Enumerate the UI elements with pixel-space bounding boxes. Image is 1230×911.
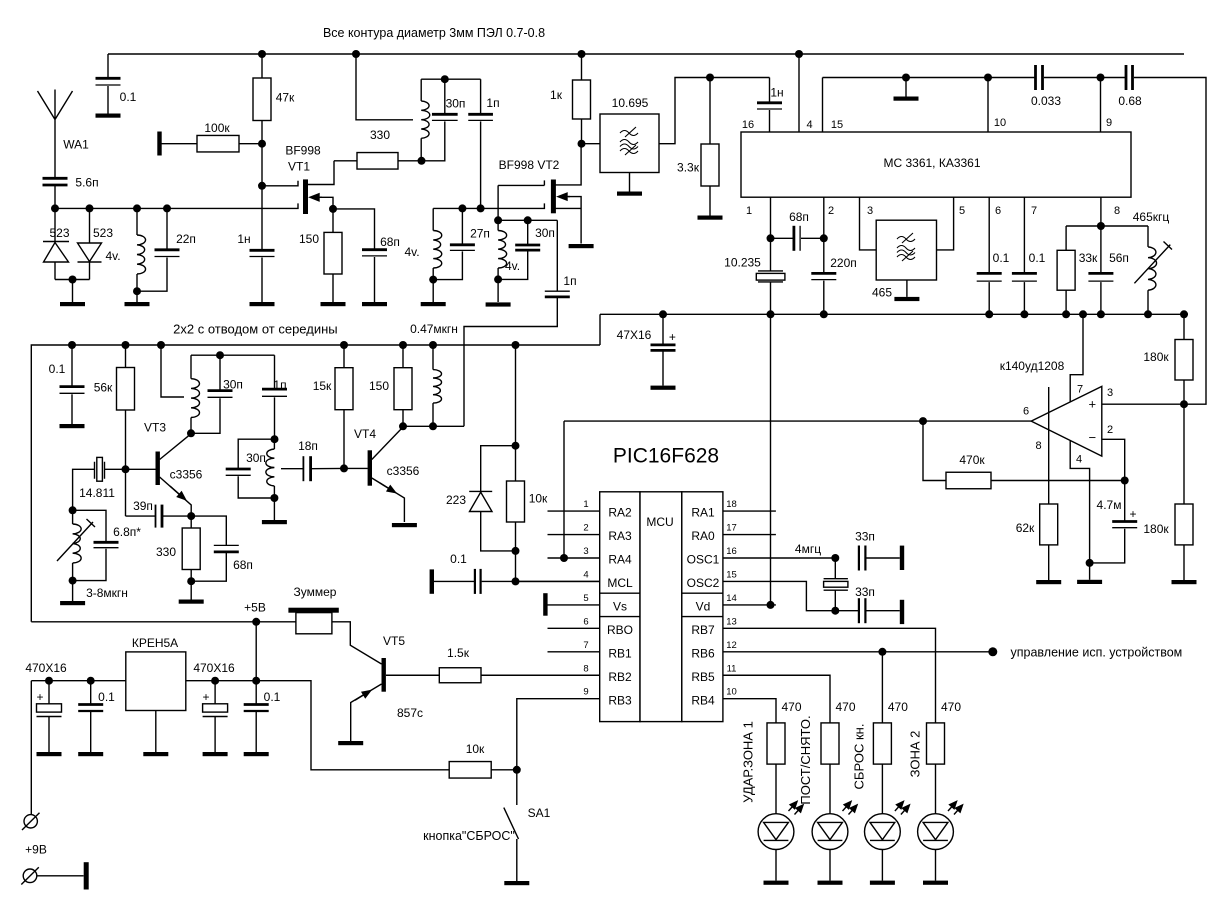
- wire LED4 bottom lead: [935, 850, 937, 881]
- svg-text:16: 16: [742, 119, 754, 131]
- wire +9V top rail: [108, 53, 1184, 55]
- capacitor 0.1 (pin7): [1012, 273, 1037, 281]
- svg-text:12: 12: [726, 640, 737, 651]
- svg-text:10к: 10к: [529, 492, 548, 506]
- wire 68p3 top link: [191, 516, 226, 545]
- wire LED3 drop: [881, 652, 883, 723]
- LED3 light arrow 2: [901, 805, 910, 815]
- ground (input tank): [125, 302, 150, 306]
- node tank top / 30p: [441, 75, 449, 83]
- wire coil bottom lead: [420, 138, 422, 161]
- svg-text:ПОСТ/СНЯТО.: ПОСТ/СНЯТО.: [798, 715, 813, 804]
- filter ZQ 10.695 box: [600, 114, 659, 173]
- svg-text:RA1: RA1: [691, 506, 715, 520]
- svg-text:RB2: RB2: [608, 670, 632, 684]
- svg-text:4: 4: [1076, 454, 1082, 466]
- capacitor 39p: [156, 505, 163, 528]
- svg-text:47X16: 47X16: [617, 328, 652, 342]
- capacitor 0.1 (input): [78, 705, 103, 712]
- ground (filter 10.695): [617, 192, 642, 196]
- transistor VT4 body: [368, 450, 372, 485]
- node bus/0.1 pin6: [985, 310, 993, 318]
- wire battery + lead: [30, 681, 32, 815]
- wire 33p bottom right lead: [866, 610, 899, 612]
- IC U3 PIC16F628 mid column: [640, 492, 682, 722]
- wire 150b top lead: [402, 345, 404, 368]
- node rail/0.1 R: [252, 677, 260, 685]
- node bus/56p: [1097, 310, 1105, 318]
- wire to ground: [72, 280, 74, 303]
- LED HL3: [865, 814, 901, 850]
- wire 3.3k top lead: [709, 78, 711, 145]
- wire 100k right lead: [239, 143, 262, 145]
- svg-text:0.1: 0.1: [1029, 251, 1046, 265]
- wire bus riser: [599, 314, 601, 345]
- wire 150 ground lead: [332, 274, 334, 302]
- node gnd tap: [902, 74, 910, 82]
- svg-text:10: 10: [726, 687, 737, 698]
- svg-text:100к: 100к: [204, 121, 230, 135]
- node VT3 tank/30p: [216, 351, 224, 359]
- svg-text:Зуммер: Зуммер: [294, 585, 337, 599]
- capacitor 68p (quad): [794, 226, 800, 251]
- svg-text:5: 5: [583, 593, 588, 604]
- wire pin16 OSC1: [723, 557, 835, 559]
- svg-text:3: 3: [1107, 387, 1113, 399]
- ground (cap 1n): [250, 302, 275, 306]
- wire pin6 RBO stub: [548, 627, 600, 629]
- LED2 light arrow 2: [849, 805, 858, 815]
- svg-text:VT5: VT5: [383, 634, 405, 648]
- wire 1p top lead: [480, 79, 482, 114]
- regulator KREN5A body: [126, 652, 186, 711]
- svg-text:33п: 33п: [855, 530, 875, 544]
- wire pin6: [988, 197, 990, 273]
- wire cap 0.1 top lead: [107, 54, 109, 78]
- LED HL1: [758, 814, 794, 850]
- wire 0.1 L top lead: [90, 681, 92, 705]
- svg-text:2: 2: [828, 205, 834, 217]
- VT3 emitter arrow: [170, 486, 186, 500]
- svg-text:56к: 56к: [94, 381, 113, 395]
- wire pin9 RB3: [517, 699, 600, 770]
- wire to MCL: [515, 551, 517, 582]
- ground (0.1 osc): [60, 424, 85, 428]
- ground (LED2): [818, 881, 843, 885]
- LED1 light arrow 1: [789, 802, 798, 812]
- wire 0.1 MCL left lead: [434, 580, 475, 582]
- svg-text:7: 7: [1077, 384, 1083, 396]
- node OSC1/crystal: [831, 554, 839, 562]
- filter ZQ 10.695 symbol: [620, 127, 638, 155]
- svg-text:8: 8: [583, 663, 588, 674]
- wire pin9: [1100, 78, 1102, 133]
- wire 6.8p bottom link: [73, 549, 106, 581]
- svg-text:c3356: c3356: [170, 468, 203, 482]
- svg-text:1н: 1н: [770, 86, 783, 100]
- wire 1p2 top lead: [556, 220, 558, 291]
- wire +5V bus left: [31, 345, 600, 622]
- wire 39p left lead: [126, 515, 156, 517]
- wire VT4 emitter: [372, 478, 405, 522]
- svg-text:857c: 857c: [397, 706, 423, 720]
- svg-text:8: 8: [1035, 440, 1041, 452]
- svg-text:RBO: RBO: [607, 623, 633, 637]
- wire VT3 gnd lead: [190, 581, 192, 599]
- svg-text:+: +: [669, 330, 676, 344]
- ground (diodes): [60, 302, 85, 306]
- terminal control output: [988, 647, 997, 656]
- svg-text:ЗОНА 2: ЗОНА 2: [908, 731, 923, 778]
- node bus/33k: [1062, 310, 1070, 318]
- wire tank2 top: [498, 219, 557, 221]
- svg-text:4: 4: [806, 119, 812, 131]
- wire 470X16 R bottom lead: [214, 717, 216, 753]
- svg-text:4v.: 4v.: [505, 259, 520, 273]
- diode VD1 523: [43, 242, 69, 263]
- wire pin2: [823, 197, 825, 238]
- svg-text:RB7: RB7: [691, 623, 715, 637]
- node top rail / tank tap: [352, 50, 360, 58]
- wire 10k bottom lead: [515, 522, 517, 551]
- wire VT4 collector line: [403, 425, 464, 427]
- transistor VT5 body: [382, 658, 386, 692]
- svg-text:3: 3: [867, 205, 873, 217]
- svg-text:33п: 33п: [855, 585, 875, 599]
- node tank2 / 30p: [524, 216, 532, 224]
- svg-text:150: 150: [369, 379, 389, 393]
- wire 68p left lead: [771, 237, 793, 239]
- terminal (chassis): [84, 862, 89, 889]
- wire opamp pin3 output: [1102, 403, 1184, 405]
- ground (47X16): [651, 386, 676, 390]
- wire pin17 RA0 stub: [723, 534, 776, 536]
- wire 470X16 R top lead: [214, 681, 216, 704]
- resistor 15k: [335, 368, 353, 410]
- svg-text:RB4: RB4: [691, 693, 715, 707]
- svg-text:22п: 22п: [176, 232, 196, 246]
- node bus/150 VT4: [399, 341, 407, 349]
- svg-text:470: 470: [781, 700, 801, 714]
- svg-text:3-8мкгн: 3-8мкгн: [86, 586, 128, 600]
- node opamp pin3: [1180, 400, 1188, 408]
- svg-text:470: 470: [888, 700, 908, 714]
- node bus / cap 22p: [163, 204, 171, 212]
- node drain tank bottom: [418, 157, 426, 165]
- capacitor 0.1 (MCL): [475, 569, 481, 594]
- node 1k/VT2/filter: [578, 140, 586, 148]
- wire tank gnd lead: [432, 280, 434, 302]
- crystal 10.235: [758, 271, 783, 282]
- svg-text:8: 8: [1114, 205, 1120, 217]
- svg-text:0.1: 0.1: [993, 251, 1010, 265]
- wire gate2 down: [497, 185, 499, 220]
- svg-text:+: +: [1129, 507, 1136, 521]
- wire 56p bottom lead: [1100, 282, 1102, 314]
- svg-text:4.7м: 4.7м: [1097, 498, 1122, 512]
- wire 15k top lead: [343, 345, 345, 368]
- svg-text:27п: 27п: [470, 227, 490, 241]
- wire pin4: [798, 54, 800, 132]
- capacitor 0.68: [1126, 65, 1133, 90]
- terminal (33p bottom): [900, 600, 904, 624]
- filter ZQ 465 box: [876, 220, 936, 280]
- node RB3/SA1: [513, 766, 521, 774]
- capacitor 18p: [303, 456, 310, 481]
- svg-text:+9В: +9В: [25, 843, 47, 857]
- resistor 3.3k: [701, 144, 719, 186]
- diode VD2 523: [78, 243, 102, 262]
- node varicap top: [69, 506, 77, 514]
- wire LED1 top lead: [775, 764, 777, 814]
- wire buzzer to VT5 base: [332, 622, 382, 664]
- wire coil3 bottom lead: [497, 268, 499, 279]
- terminal (0.1 MCL): [430, 569, 434, 593]
- ground (3-8uH): [60, 601, 85, 605]
- svg-text:15: 15: [726, 569, 737, 580]
- wire 56k bottom lead: [125, 410, 127, 516]
- capacitor 0.1 (osc supply): [60, 387, 85, 394]
- wire crystal 4MHz bottom lead: [834, 590, 836, 611]
- wire pin13 RB7: [723, 628, 936, 723]
- wire 0.47u bottom lead: [432, 403, 434, 426]
- svg-text:465кгц: 465кгц: [1133, 210, 1170, 224]
- node pin8: [1097, 222, 1105, 230]
- wire buffer coil bottom lead: [273, 486, 275, 498]
- wire crystal left lead: [73, 469, 95, 510]
- wire pin7 RB1 stub: [548, 651, 600, 653]
- svg-text:30п: 30п: [535, 226, 555, 240]
- buzzer top plate: [288, 608, 338, 613]
- wire pin6 cap bottom: [988, 282, 990, 314]
- node MCL: [512, 577, 520, 585]
- capacitor 47X16 electrolytic: [651, 345, 676, 351]
- resistor 470 (LED3): [873, 723, 891, 764]
- node Vd: [767, 601, 775, 609]
- resistor 10k pullup: [507, 481, 525, 522]
- node gate2 bias: [258, 140, 266, 148]
- node 10k/223 top: [512, 442, 520, 450]
- wire +5V rail: [31, 621, 296, 623]
- wire 330e top lead: [190, 516, 192, 528]
- wire varicoil gnd lead: [72, 581, 74, 601]
- wire 15k bottom lead: [343, 410, 345, 469]
- wire 0.1 L bottom lead: [90, 712, 92, 752]
- node VT3 base: [122, 465, 130, 473]
- wire pin8 RB2 lead: [481, 674, 600, 676]
- capacitor 33p top: [859, 546, 866, 571]
- wire +5V bus right: [600, 313, 1188, 315]
- wire 150b bottom lead: [402, 410, 404, 427]
- svg-text:1н: 1н: [237, 232, 250, 246]
- svg-text:2: 2: [583, 523, 588, 534]
- svg-text:RA0: RA0: [691, 529, 715, 543]
- svg-text:6: 6: [1023, 406, 1029, 418]
- wire 62k gnd lead: [1048, 545, 1050, 580]
- svg-text:7: 7: [583, 640, 588, 651]
- svg-text:MCL: MCL: [607, 576, 633, 590]
- LED4 light arrow 1: [948, 802, 957, 812]
- wire 100k left lead: [162, 143, 198, 145]
- node filter out / 3.3k: [706, 74, 714, 82]
- wire crystal 10.235 bottom: [770, 282, 772, 314]
- 465kHz adjuster arrow: [1134, 242, 1172, 284]
- wire VT2 gate2: [543, 180, 545, 185]
- wire 1p bottom lead: [480, 121, 482, 208]
- wire 10k branch: [515, 345, 517, 446]
- node bus/56k: [122, 341, 130, 349]
- wire pin10 RB4: [723, 699, 776, 723]
- capacitor 1n (VT1 gate): [250, 250, 275, 256]
- capacitor 1p (coupling): [468, 114, 493, 120]
- capacitor 27p: [450, 245, 475, 251]
- svg-text:9: 9: [583, 687, 588, 698]
- wire diode common: [55, 279, 90, 281]
- ground (62k): [1036, 580, 1061, 584]
- wire VT3 tank top: [191, 354, 275, 356]
- antenna WA1: [38, 90, 73, 179]
- wire pin10: [987, 78, 989, 133]
- wire 47X16 top lead: [662, 314, 664, 344]
- wire crystal 4MHz top lead: [834, 558, 836, 579]
- svg-text:180к: 180к: [1143, 522, 1169, 536]
- ground (VT3): [179, 600, 204, 604]
- wire 30p3 bottom lead: [191, 398, 220, 433]
- wire varicoil bottom lead: [72, 563, 74, 581]
- wire 33k bottom lead: [1065, 290, 1067, 314]
- svg-text:56п: 56п: [1109, 251, 1129, 265]
- +9V terminal: [22, 813, 40, 830]
- wire 30p2 bottom lead: [498, 251, 528, 279]
- node VT1 source: [329, 205, 337, 213]
- wire pin11 RB5: [723, 675, 830, 723]
- wire coil 4v top lead: [136, 208, 138, 235]
- svg-text:30п: 30п: [446, 97, 466, 111]
- wire opamp pin7: [1070, 314, 1083, 402]
- capacitor 470X16 right: [203, 704, 228, 717]
- svg-text:0.47мкгн: 0.47мкгн: [410, 322, 458, 336]
- wire RA4 link: [563, 421, 565, 558]
- node buffer tank bottom: [270, 494, 278, 502]
- wire 470X16 L top lead: [48, 681, 50, 704]
- capacitor 1p (VT2 out): [545, 291, 570, 297]
- svg-text:1: 1: [746, 205, 752, 217]
- wire 0.1 left top lead: [71, 345, 73, 386]
- capacitor 30p (drain tank): [432, 114, 458, 120]
- resistor 180k upper: [1175, 340, 1193, 381]
- wire 3.3k gnd lead: [709, 186, 711, 216]
- svg-text:OSC1: OSC1: [687, 553, 720, 567]
- svg-text:470к: 470к: [959, 453, 985, 467]
- wire VD2 bottom: [89, 262, 91, 280]
- node 0.47u bottom: [429, 422, 437, 430]
- svg-text:Vd: Vd: [696, 600, 711, 614]
- svg-text:WA1: WA1: [63, 138, 89, 152]
- wire cap 22p bottom lead: [137, 258, 167, 292]
- VT5 emitter arrow: [355, 691, 371, 701]
- wire pin8: [1100, 197, 1102, 226]
- svg-text:VT1: VT1: [288, 160, 310, 174]
- wire gate2 VT1: [262, 181, 298, 186]
- wire pin4 gnd lead: [1089, 563, 1091, 580]
- svg-text:RB5: RB5: [691, 670, 715, 684]
- wire coil3 top lead: [497, 220, 499, 230]
- wire to 68p: [333, 209, 375, 250]
- wire 465 gnd lead: [906, 280, 908, 297]
- svg-text:15к: 15к: [313, 379, 332, 393]
- svg-text:Все контура диаметр 3мм ПЭЛ 0.: Все контура диаметр 3мм ПЭЛ 0.7-0.8: [323, 26, 545, 40]
- capacitor 0.1 (output): [244, 705, 269, 712]
- capacitor 30p (VT3 tank): [208, 391, 233, 398]
- wire coil 4v2 top lead: [432, 208, 434, 230]
- wire 470k right lead: [991, 480, 1125, 482]
- inductor 3-8uH variable: [73, 524, 82, 563]
- svg-text:BF998 VT2: BF998 VT2: [499, 158, 560, 172]
- svg-text:4v.: 4v.: [404, 245, 419, 259]
- wire SA1 bottom lead: [516, 839, 518, 881]
- wire 33p bottom left lead: [835, 610, 859, 612]
- wire 470X16 L bottom lead: [48, 717, 50, 753]
- node bus/220p: [820, 310, 828, 318]
- svg-text:470X16: 470X16: [25, 661, 67, 675]
- transistor VT1 BF998 body: [303, 179, 308, 214]
- wire bias to gate2: [261, 144, 263, 186]
- wire VT5 emitter: [351, 684, 382, 741]
- ground (0.1 input): [78, 752, 103, 756]
- wire 47k bottom lead: [261, 121, 263, 144]
- svg-text:2: 2: [1107, 424, 1113, 436]
- wire LED3 bottom lead: [881, 850, 883, 881]
- node VT4 collector: [399, 422, 407, 430]
- wire 465kHz coil top lead: [1147, 226, 1149, 247]
- node bus/180k: [1180, 310, 1188, 318]
- LED4 light arrow 2: [954, 805, 963, 815]
- svg-text:4мгц: 4мгц: [795, 542, 821, 556]
- node bus/opamp pin7: [1079, 310, 1087, 318]
- svg-text:МС 3361, КА3361: МС 3361, КА3361: [883, 156, 980, 170]
- inductor 4v (VT2 tank): [498, 231, 507, 269]
- svg-text:кнопка"СБРОС": кнопка"СБРОС": [423, 829, 515, 843]
- resistor 1k: [573, 80, 591, 119]
- wire 470k feedback left: [923, 421, 946, 480]
- svg-text:470X16: 470X16: [193, 661, 235, 675]
- wire buffer coil top lead: [273, 439, 275, 449]
- svg-text:6.8п*: 6.8п*: [113, 525, 141, 539]
- wire 223 bottom link: [481, 512, 516, 551]
- wire MCL lead: [482, 580, 600, 582]
- svg-text:523: 523: [49, 226, 69, 240]
- svg-text:2х2 с отводом от середины: 2х2 с отводом от середины: [173, 322, 337, 337]
- node pin2/68p: [820, 234, 828, 242]
- wire VT2 source: [568, 197, 581, 244]
- svg-text:14: 14: [726, 593, 737, 604]
- wire regulator output rail: [186, 681, 449, 770]
- wire 220p top: [823, 238, 825, 273]
- svg-text:1п: 1п: [563, 274, 576, 288]
- svg-text:0.68: 0.68: [1118, 94, 1142, 108]
- wire 1k bottom lead: [581, 119, 583, 144]
- wire 33k top lead: [1065, 226, 1067, 250]
- wire 18p right lead: [312, 467, 344, 469]
- node buffer tank top: [271, 435, 279, 443]
- inductor tank VT1 (tapped): [421, 101, 430, 138]
- wire 6.8p top link: [73, 510, 106, 542]
- wire +5V riser: [255, 622, 257, 681]
- crystal 4MHz: [824, 579, 848, 591]
- wire pin8 branch: [1066, 225, 1148, 227]
- svg-text:11: 11: [727, 663, 737, 674]
- node coil/cap 22p: [133, 287, 141, 295]
